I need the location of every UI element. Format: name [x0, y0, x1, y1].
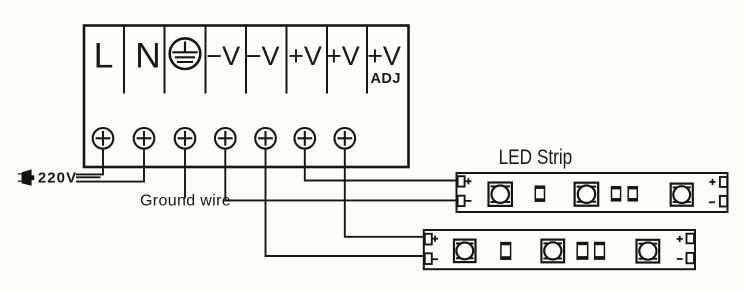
LED strip 2 pad minus right	[687, 253, 695, 263]
LED strip 1 pad minus right	[720, 196, 727, 207]
screw terminal 4 (-V)	[215, 128, 236, 149]
LED strip 1 pad plus left	[458, 176, 465, 186]
terminal cell divider 5	[286, 26, 288, 94]
power supply terminal block outline	[84, 26, 409, 168]
LED strip 1 pad minus left	[458, 196, 465, 206]
resistor R5 on strip 2	[577, 242, 588, 259]
svg-text:+V: +V	[326, 41, 360, 71]
svg-text:ADJ: ADJ	[371, 71, 401, 87]
terminal cell divider 2	[164, 26, 166, 94]
LED D2 on strip 1	[575, 183, 599, 206]
svg-text:220V: 220V	[38, 170, 77, 187]
LED D3 on strip 1	[671, 184, 693, 206]
LED D5 on strip 2	[541, 240, 564, 263]
LED strip 2 pad plus left	[425, 234, 432, 245]
LED D4 on strip 2	[454, 240, 476, 263]
svg-text:L: L	[94, 36, 114, 76]
LED strip 1 plus sign right	[709, 179, 715, 185]
LED strip 2 pad minus left	[425, 253, 432, 264]
terminal cell divider 3	[205, 26, 207, 94]
resistor R4 on strip 2	[501, 242, 511, 259]
LED strip 1 minus sign left	[465, 200, 471, 202]
LED strip 2 plus sign right	[677, 236, 683, 242]
screw terminal 3 (earth)	[175, 128, 196, 149]
svg-text:+V: +V	[367, 41, 401, 71]
screw terminal 1 (L)	[93, 128, 114, 149]
screw terminal 5 (-V)	[255, 128, 276, 149]
AC plug icon	[18, 169, 35, 185]
LED strip 2 minus sign right	[677, 258, 683, 260]
terminal cell divider 4	[245, 26, 247, 94]
wire +V terminal to LED strip 2 plus	[345, 149, 424, 237]
wire +V terminal to LED strip 1 plus	[305, 149, 457, 181]
resistor R1 on strip 1	[535, 186, 545, 201]
resistor R6 on strip 2	[594, 242, 604, 259]
wire 220V mains second conductor stub	[76, 176, 101, 178]
wire -V terminal to LED strip 1 minus	[225, 149, 456, 201]
screw terminal 7 (+V)	[335, 128, 356, 149]
svg-text:Ground wire: Ground wire	[140, 193, 231, 210]
LED strip 2 plus sign left	[432, 236, 438, 242]
wire L terminal to 220V mains	[76, 149, 103, 175]
LED strip 1 minus sign right	[709, 201, 715, 203]
LED strip 1 pad plus right	[720, 177, 727, 187]
wire earth terminal (ground wire)	[184, 149, 186, 199]
LED strip 1 plus sign left	[465, 178, 471, 184]
terminal cell divider 7	[366, 26, 368, 94]
terminal cell divider 1	[123, 26, 125, 94]
screw terminal 6 (+V)	[295, 128, 316, 149]
LED strip 2 pad plus right	[687, 234, 695, 244]
LED D6 on strip 2	[637, 240, 660, 263]
wire N terminal to 220V mains	[76, 149, 144, 182]
protective earth symbol	[170, 38, 201, 69]
svg-text:−V: −V	[206, 41, 240, 71]
LED D1 on strip 1	[489, 183, 512, 206]
svg-text:N: N	[135, 36, 161, 76]
screw terminal 2 (N)	[134, 128, 155, 149]
LED strip 1 body	[457, 173, 728, 212]
LED strip 2 minus sign left	[432, 258, 438, 260]
svg-text:LED Strip: LED Strip	[499, 147, 573, 170]
resistor R3 on strip 1	[628, 187, 638, 201]
svg-text:−V: −V	[246, 41, 280, 71]
wire -V terminal to LED strip 2 minus	[266, 149, 424, 256]
svg-text:+V: +V	[288, 41, 322, 71]
LED strip 2 body	[424, 230, 695, 269]
terminal cell divider 6	[326, 26, 328, 94]
resistor R2 on strip 1	[611, 187, 621, 201]
